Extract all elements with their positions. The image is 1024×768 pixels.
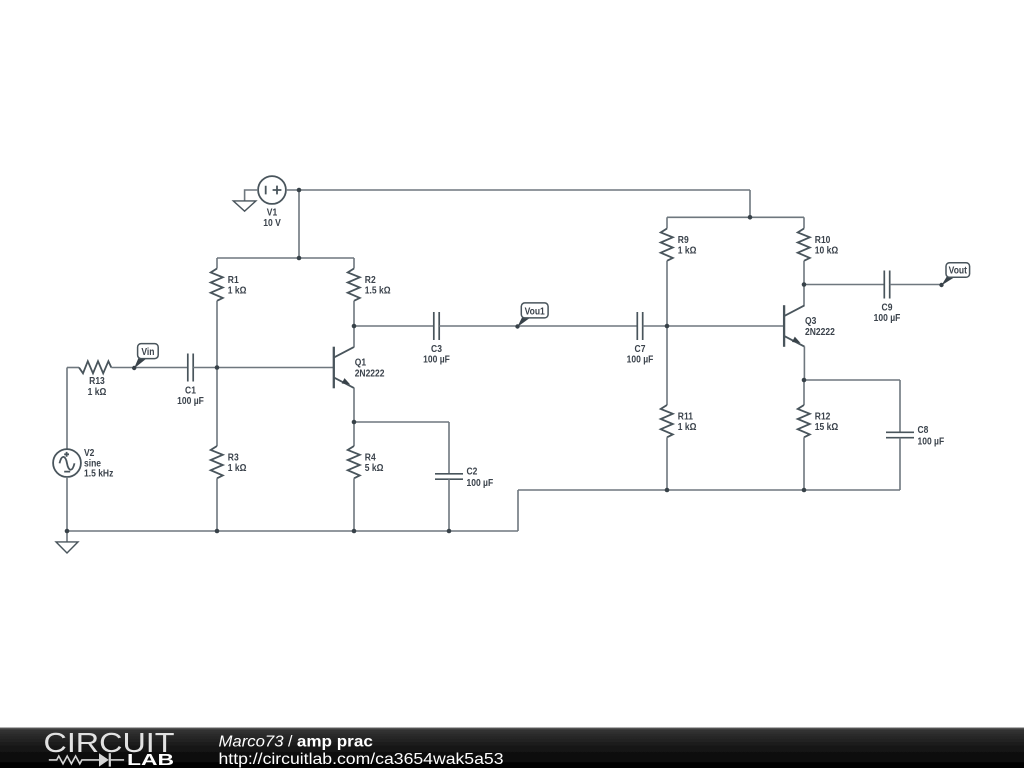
wire ground rail stage1: [67, 530, 518, 532]
svg-text:1 kΩ: 1 kΩ: [88, 386, 107, 397]
junction Q1 collector node: [352, 324, 357, 329]
resistor R3: [211, 446, 247, 478]
junction base node stage1: [215, 365, 220, 370]
wire bottom rail stage2: [518, 489, 900, 491]
wire V2 to ground rail: [66, 477, 68, 531]
wire C8 to bottom rail: [899, 438, 901, 490]
wire collector node to C9: [804, 284, 884, 286]
wire R9 to base node: [666, 261, 668, 326]
resistor R9: [661, 229, 697, 261]
svg-text:http://circuitlab.com/ca3654wa: http://circuitlab.com/ca3654wak5a53: [219, 751, 504, 768]
wire Q1 emitter lead: [353, 388, 355, 422]
svg-text:C2: C2: [467, 466, 478, 477]
svg-text:Q3: Q3: [805, 315, 816, 326]
junction ground rail at V2: [65, 529, 70, 534]
wire R2 to collector node: [353, 301, 355, 326]
resistor R10: [798, 229, 839, 261]
wire V1 plus to corner: [286, 189, 750, 191]
svg-text:10 V: 10 V: [263, 218, 281, 229]
svg-text:R1: R1: [228, 275, 239, 286]
junction Q3 emitter node: [802, 378, 807, 383]
svg-text:100 µF: 100 µF: [467, 477, 494, 488]
capacitor C1: [177, 354, 204, 407]
junction bottom rail at R11: [665, 488, 670, 493]
svg-text:2N2222: 2N2222: [805, 326, 835, 337]
wire R11 to bottom rail: [666, 437, 668, 490]
wire R1 to base node: [216, 301, 218, 368]
wire R3 to ground rail: [216, 478, 218, 531]
junction stage1 rail: [297, 256, 302, 261]
svg-text:15 kΩ: 15 kΩ: [815, 422, 838, 433]
svg-text:Vout: Vout: [949, 265, 967, 276]
transistor Q1: [334, 347, 385, 389]
wire R10 to Q3 collector: [803, 261, 805, 306]
wire stage2 supply rail: [667, 216, 804, 218]
resistor R13: [79, 361, 111, 397]
junction bottom rail at R12: [802, 488, 807, 493]
junction ground rail at C2: [447, 529, 452, 534]
junction stage2 rail: [748, 215, 753, 220]
capacitor C3: [423, 312, 450, 365]
capacitor C7: [627, 312, 654, 365]
resistor R1: [211, 269, 247, 301]
svg-text:sine: sine: [84, 458, 101, 469]
svg-text:Vou1: Vou1: [525, 306, 545, 317]
voltage source V2: [53, 447, 114, 478]
svg-text:1 kΩ: 1 kΩ: [678, 422, 697, 433]
resistor R2: [348, 269, 391, 301]
svg-text:1.5 kHz: 1.5 kHz: [84, 468, 114, 479]
svg-text:10 kΩ: 10 kΩ: [815, 245, 838, 256]
capacitor C9: [874, 271, 901, 324]
wire R13 to C1: [111, 367, 188, 369]
svg-text:100 µF: 100 µF: [423, 354, 450, 365]
wire C7 to Q3 base: [643, 325, 784, 327]
wire Q3 emitter lead: [803, 346, 805, 380]
svg-text:C7: C7: [635, 343, 646, 354]
wire C1 to Q1 base: [193, 367, 334, 369]
capacitor C8: [886, 425, 945, 447]
resistor R4: [348, 446, 384, 478]
svg-text:R9: R9: [678, 235, 689, 246]
svg-text:R13: R13: [89, 376, 105, 387]
wire input corner to R13: [67, 367, 79, 369]
svg-text:R11: R11: [678, 411, 693, 422]
svg-text:1 kΩ: 1 kΩ: [678, 245, 697, 256]
voltage source V1: [258, 176, 286, 228]
wire emitter node to R12: [803, 380, 805, 405]
svg-text:Q1: Q1: [355, 357, 366, 368]
svg-text:1 kΩ: 1 kΩ: [228, 463, 247, 474]
svg-text:1 kΩ: 1 kΩ: [228, 285, 247, 296]
wire rail to R1: [216, 258, 218, 269]
junction V1 output node: [297, 188, 302, 193]
wire R4 to ground rail: [353, 478, 355, 531]
wire ground rail step up: [517, 490, 519, 531]
junction Q3 collector node: [802, 282, 807, 287]
flag Vou1: [515, 303, 548, 329]
wire down to C8 top: [899, 380, 901, 432]
flag Vin: [132, 344, 158, 371]
svg-text:R2: R2: [365, 275, 376, 286]
svg-text:2N2222: 2N2222: [355, 368, 385, 379]
wire base node to R3: [216, 368, 218, 447]
svg-text:LAB: LAB: [127, 752, 174, 768]
svg-text:C9: C9: [882, 302, 893, 313]
wire C9 to Vout: [890, 284, 942, 286]
wire Q1 collector lead: [353, 326, 355, 347]
wire corner down to stage2 rail: [749, 190, 751, 217]
wire drop from V1 node to stage1 rail: [298, 190, 300, 258]
CircuitLab logo resistor-diode mark: [49, 753, 124, 766]
wire rail to R10: [803, 217, 805, 228]
wire stage1 supply rail: [217, 257, 354, 259]
svg-text:100 µF: 100 µF: [874, 313, 901, 324]
svg-text:100 µF: 100 µF: [627, 354, 654, 365]
wire C3 to C7 with Vou1 tap: [439, 325, 637, 327]
wire emitter node to R4: [353, 422, 355, 446]
footer bar: [0, 728, 1024, 768]
svg-text:1.5 kΩ: 1.5 kΩ: [365, 285, 391, 296]
wire emitter node to C8: [804, 379, 900, 381]
svg-text:R4: R4: [365, 452, 377, 463]
svg-text:R3: R3: [228, 452, 239, 463]
resistor R12: [798, 405, 839, 437]
svg-text:C1: C1: [185, 385, 196, 396]
capacitor C2: [435, 466, 494, 488]
junction ground rail at R3: [215, 529, 220, 534]
svg-text:V1: V1: [267, 207, 277, 218]
junction stage2 base node: [665, 324, 670, 329]
junction ground rail at R4: [352, 529, 357, 534]
wire collector node to C3: [354, 325, 434, 327]
transistor Q3: [784, 305, 835, 347]
wire down to C2 top: [448, 422, 450, 474]
svg-text:100 µF: 100 µF: [918, 436, 945, 447]
wire C2 to ground rail: [448, 479, 450, 531]
svg-text:5 kΩ: 5 kΩ: [365, 463, 384, 474]
wire R12 to bottom rail: [803, 437, 805, 490]
svg-text:R12: R12: [815, 411, 831, 422]
svg-text:C3: C3: [431, 343, 442, 354]
svg-text:C8: C8: [918, 425, 929, 436]
svg-text:V2: V2: [84, 447, 94, 458]
wire emitter node to C2: [354, 421, 449, 423]
svg-text:100 µF: 100 µF: [177, 396, 204, 407]
junction Q1 emitter node: [352, 420, 357, 425]
svg-text:Vin: Vin: [141, 346, 154, 357]
wire rail to R2: [353, 258, 355, 269]
svg-text:R10: R10: [815, 235, 831, 246]
wire rail to R9: [666, 217, 668, 228]
resistor R11: [661, 405, 697, 437]
wire R13 corner down to V2: [66, 368, 68, 450]
ground for V1: [233, 190, 258, 211]
wire base node to R11: [666, 326, 668, 405]
ground for V2: [56, 531, 78, 553]
flag Vout: [939, 263, 969, 287]
svg-text:Marco73 / amp prac: Marco73 / amp prac: [219, 733, 373, 750]
